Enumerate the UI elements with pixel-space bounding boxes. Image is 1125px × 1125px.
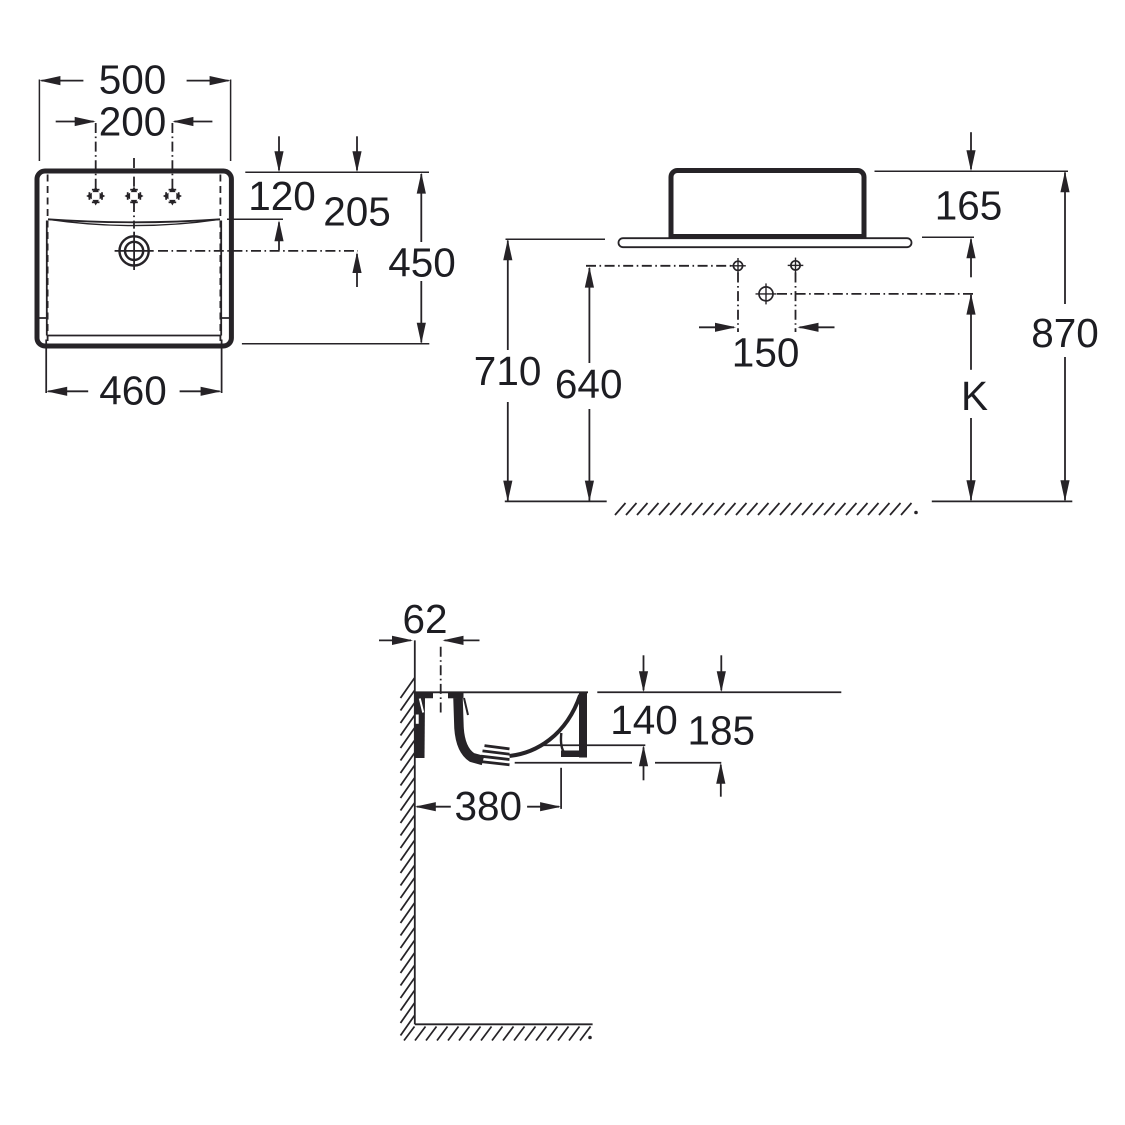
svg-text:640: 640 bbox=[555, 361, 623, 407]
svg-text:450: 450 bbox=[388, 240, 456, 286]
svg-text:710: 710 bbox=[474, 348, 542, 394]
svg-text:200: 200 bbox=[99, 98, 167, 144]
svg-text:165: 165 bbox=[935, 182, 1003, 228]
svg-text:150: 150 bbox=[732, 329, 800, 375]
svg-text:62: 62 bbox=[402, 596, 447, 642]
svg-text:380: 380 bbox=[455, 783, 523, 829]
svg-text:870: 870 bbox=[1031, 310, 1099, 356]
svg-text:500: 500 bbox=[99, 57, 167, 103]
svg-text:205: 205 bbox=[323, 189, 391, 235]
svg-text:120: 120 bbox=[248, 173, 316, 219]
svg-text:460: 460 bbox=[99, 368, 167, 414]
svg-text:140: 140 bbox=[610, 697, 678, 743]
svg-text:185: 185 bbox=[688, 708, 756, 754]
svg-text:K: K bbox=[961, 373, 988, 419]
